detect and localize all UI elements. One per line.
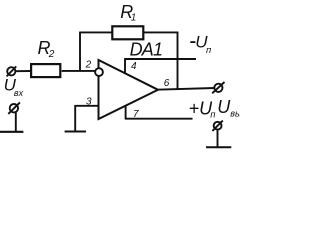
svg-text:1: 1 (131, 13, 137, 24)
svg-text:п: п (206, 45, 212, 56)
svg-text:4: 4 (131, 61, 137, 72)
resistor R1 (112, 26, 143, 39)
svg-text:2: 2 (85, 59, 92, 70)
pin 7 rail (125, 118, 193, 120)
wire output terminal ground drop (217, 130, 219, 148)
terminal output ground (212, 121, 222, 131)
svg-text:вых: вых (230, 109, 240, 119)
wire feedback riser right (177, 32, 179, 89)
pin 7 stub (125, 105, 127, 119)
svg-text:п: п (210, 110, 216, 121)
svg-text:2: 2 (48, 49, 55, 60)
wire riser to R1 (79, 31, 112, 33)
terminal input 1 (7, 66, 17, 76)
wire input2 ground drop (15, 112, 17, 132)
svg-text:вх: вх (14, 88, 24, 98)
op-amp DA1 triangle (99, 60, 159, 119)
ground drop (pin 3) (74, 105, 76, 132)
label -Un (190, 41, 195, 43)
ground bar bottom-left (0, 131, 23, 133)
wire R2 to inverting input (62, 70, 96, 72)
resistor R2 (31, 64, 60, 77)
pin 3 wire (75, 105, 98, 107)
svg-text:7: 7 (133, 109, 139, 120)
wire input to R2 (15, 70, 31, 72)
terminal input 2 (8, 102, 20, 114)
pin 4 stub (124, 59, 126, 73)
pin 4 rail (124, 58, 196, 60)
svg-text:DA1: DA1 (130, 39, 163, 59)
ground bar bottom-right (206, 146, 231, 148)
output wire pin 6 (157, 88, 215, 90)
ground bar (pin 3) (65, 131, 86, 133)
svg-text:3: 3 (86, 97, 92, 108)
wire feedback riser left (79, 32, 81, 71)
wire R1 to feedback riser right (144, 31, 179, 33)
output terminal (212, 82, 224, 93)
svg-text:6: 6 (164, 78, 170, 89)
svg-text:U: U (217, 97, 231, 117)
inverting input bubble (95, 68, 103, 76)
